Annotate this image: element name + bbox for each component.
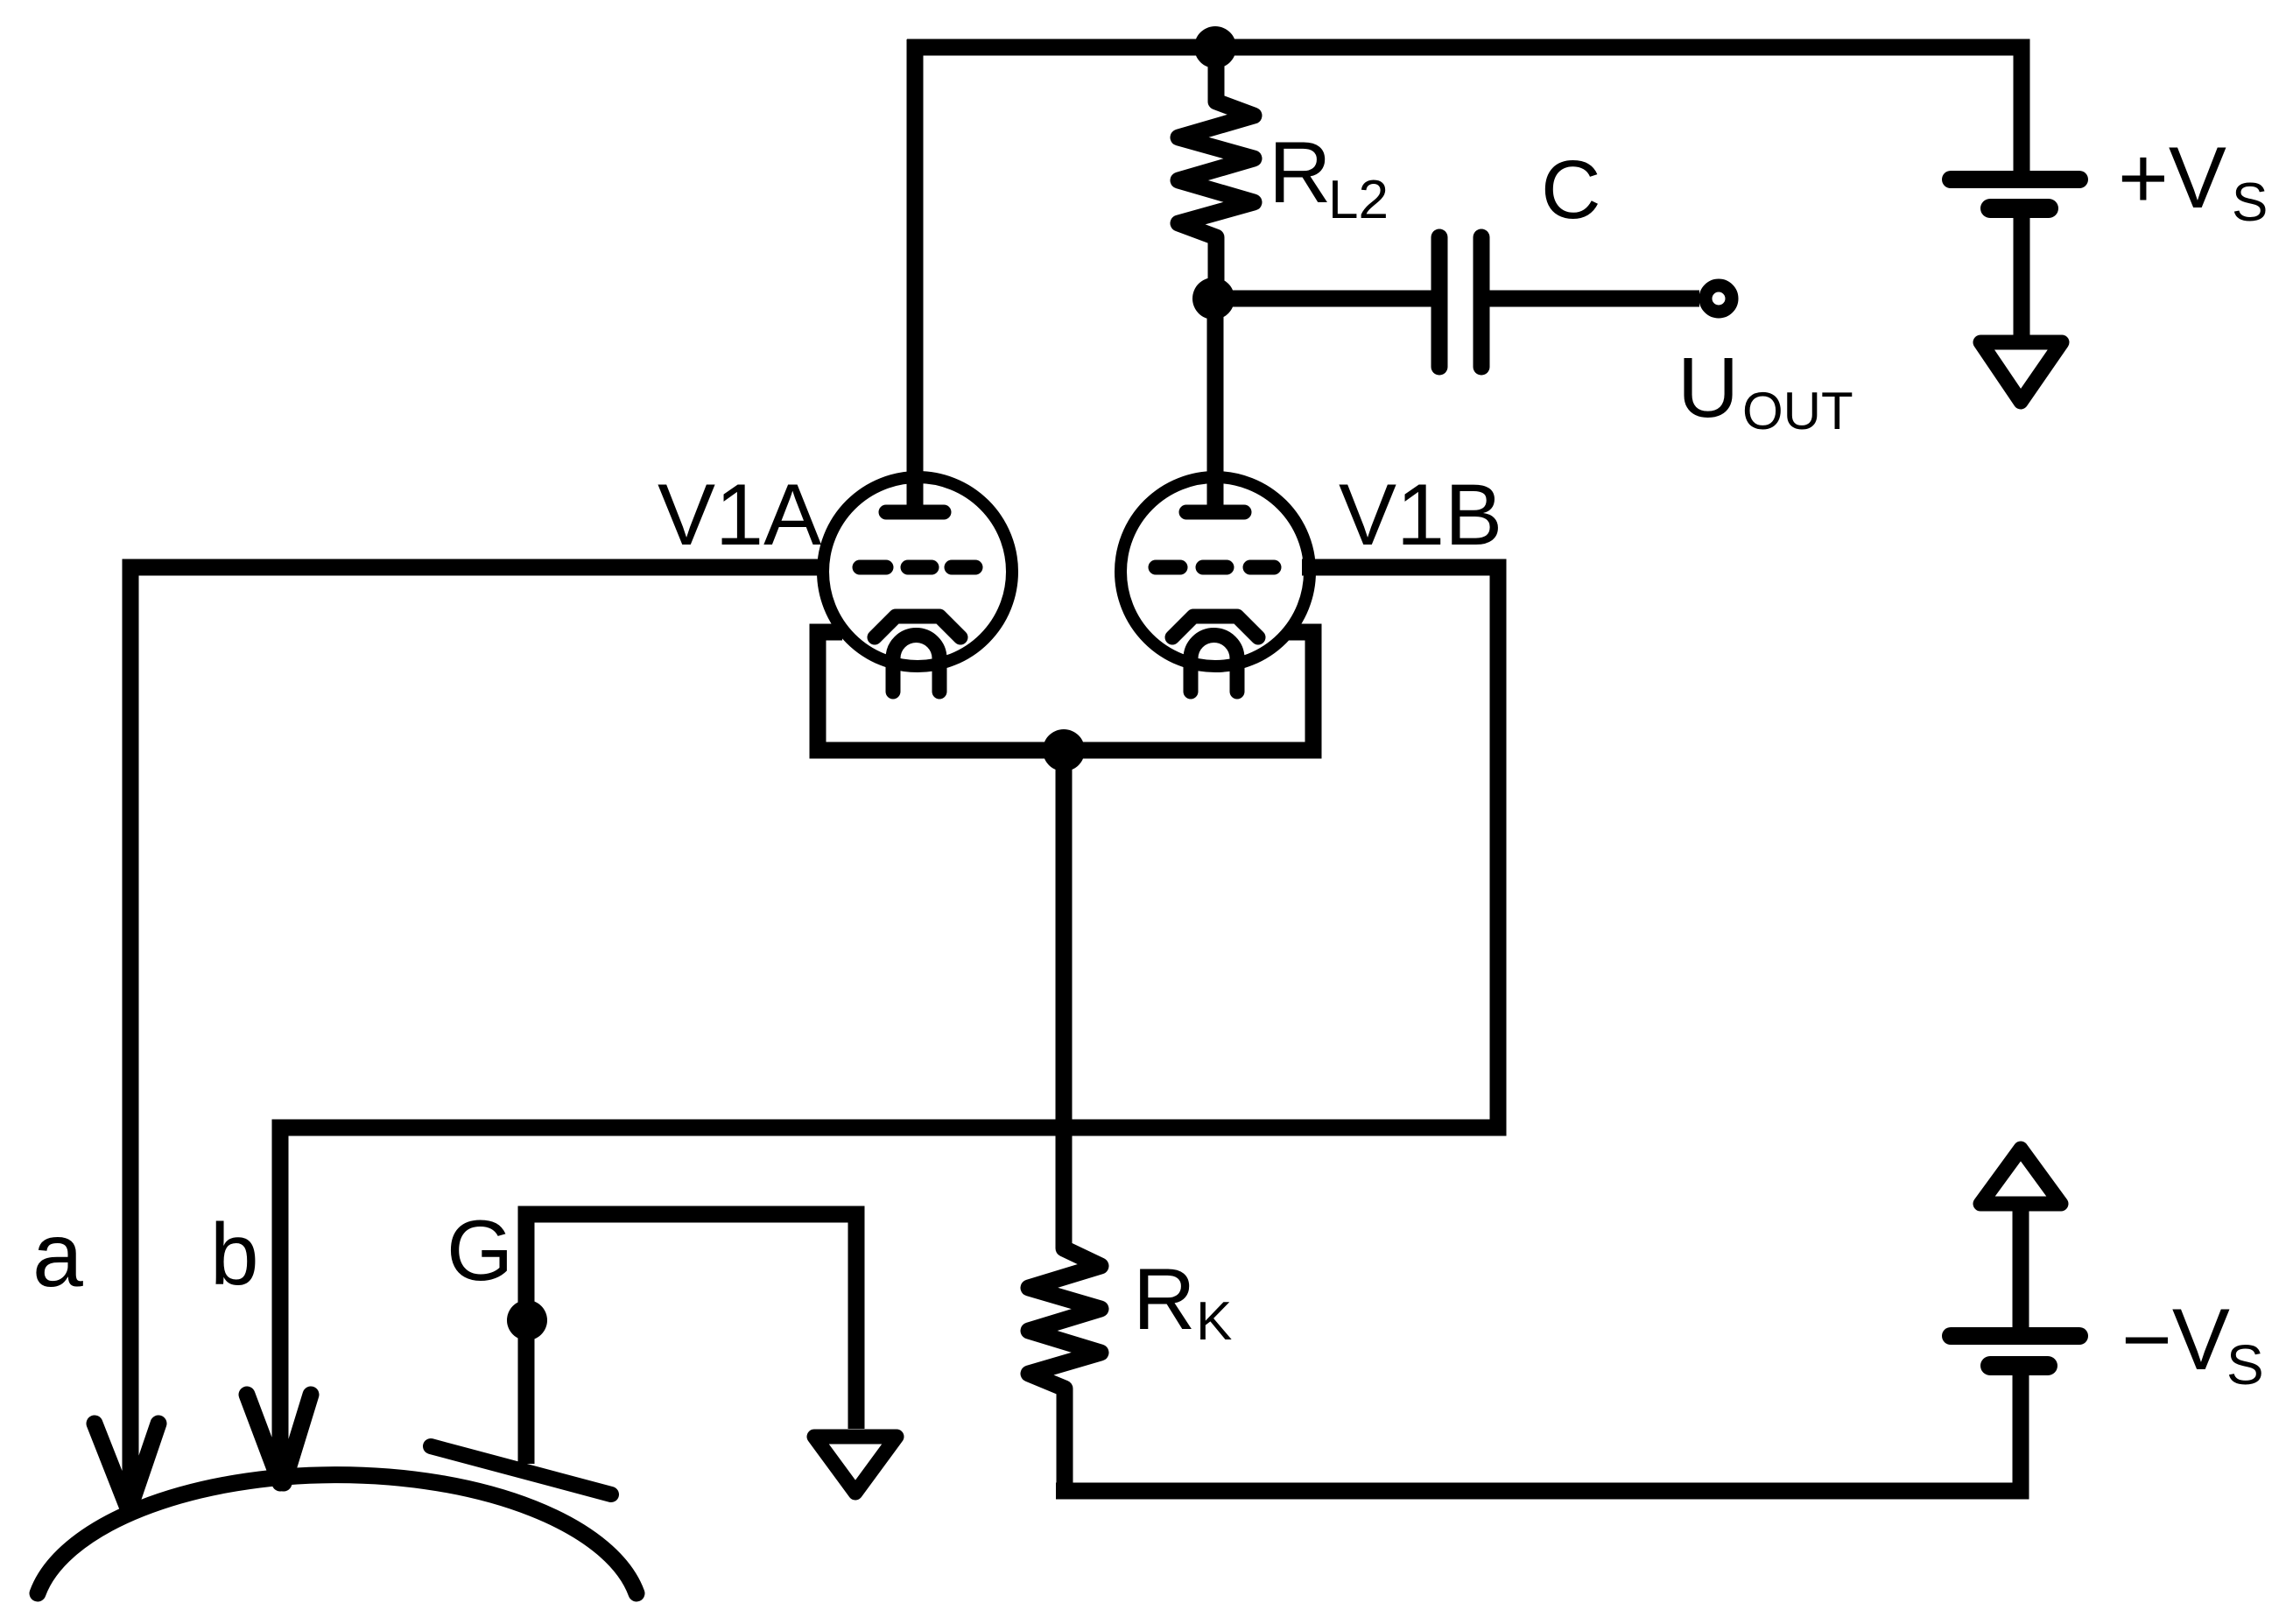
junction node cathode / RK: [1043, 729, 1085, 771]
V1A heater arch: [893, 636, 939, 692]
wire G electrode: [526, 1214, 856, 1464]
wire battery +Vs to ground: [2014, 208, 2030, 343]
battery +Vs short plate: [1990, 199, 2049, 218]
svg-text:V1B: V1B: [1339, 466, 1502, 563]
junction node RL2 / V1B anode / C: [1192, 278, 1234, 320]
svg-text:a: a: [32, 1205, 83, 1306]
wire V1A grid to net a: [130, 567, 824, 1499]
ground symbol under +Vs: [1980, 342, 2062, 402]
wire -Vs battery to arrow: [2013, 1206, 2029, 1336]
output terminal circle: [1706, 285, 1732, 312]
svg-text:−V: −V: [2121, 1290, 2230, 1388]
wire capacitor to output terminal: [1489, 291, 1699, 307]
svg-text:R: R: [1133, 1250, 1196, 1347]
svg-text:U: U: [1678, 340, 1739, 435]
svg-text:G: G: [447, 1202, 513, 1298]
battery +Vs long plate: [1951, 171, 2079, 188]
V1B cathode: [1172, 616, 1258, 637]
wire V1B anode lead: [1207, 299, 1224, 506]
junction node top rail / RL2: [1194, 26, 1236, 68]
electrode arrow a: [95, 1424, 158, 1506]
scalp arc: [38, 1475, 637, 1593]
tube V1A envelope: [823, 477, 1012, 666]
V1B heater arch: [1191, 636, 1237, 692]
wire RK to -Vs battery: [1056, 1366, 2021, 1491]
svg-text:b: b: [210, 1206, 259, 1304]
V1B plate bar: [1186, 505, 1244, 520]
resistor RK: [1029, 750, 1101, 1491]
capacitor C left plate: [1431, 237, 1448, 367]
electrode plate under G: [431, 1446, 611, 1494]
tube V1B envelope: [1121, 477, 1310, 666]
V1B grid dashes: [1156, 560, 1274, 575]
electrode arrow b: [247, 1395, 311, 1483]
svg-text:K: K: [1196, 1291, 1232, 1352]
svg-text:R: R: [1269, 123, 1332, 221]
svg-text:C: C: [1541, 144, 1601, 236]
svg-text:L2: L2: [1328, 170, 1389, 230]
svg-text:+V: +V: [2118, 129, 2226, 226]
V1A grid dashes: [860, 560, 975, 575]
cathode box wire: [818, 632, 1313, 750]
resistor RL2: [1178, 47, 1254, 299]
battery -Vs short plate: [1990, 1356, 2048, 1375]
wire V1A anode lead: [907, 39, 924, 506]
wire output node to capacitor: [1213, 291, 1432, 307]
wire top +Vs rail: [907, 47, 2022, 179]
wire V1B grid to net b: [280, 567, 1498, 1478]
V1A plate bar: [886, 505, 944, 520]
-Vs arrow head up: [1980, 1149, 2061, 1204]
svg-text:S: S: [2232, 172, 2268, 233]
capacitor C right plate: [1474, 237, 1490, 367]
V1A cathode: [875, 616, 960, 637]
ground symbol small: [814, 1437, 897, 1493]
svg-text:S: S: [2226, 1333, 2264, 1396]
svg-text:V1A: V1A: [658, 466, 821, 563]
svg-text:OUT: OUT: [1742, 382, 1853, 440]
battery -Vs long plate: [1951, 1327, 2079, 1345]
junction node G: [507, 1300, 547, 1340]
